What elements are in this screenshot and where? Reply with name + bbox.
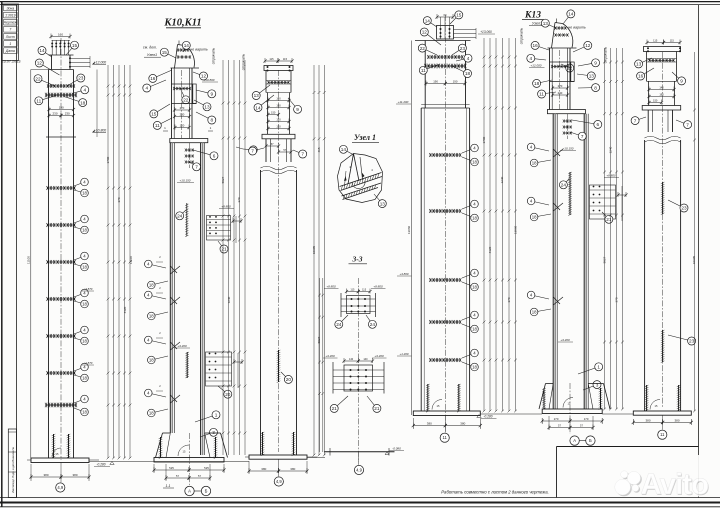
- svg-text:7: 7: [195, 165, 198, 170]
- svg-text:170: 170: [584, 417, 589, 421]
- column A base dims: [30, 464, 32, 481]
- svg-text:13: 13: [589, 74, 595, 79]
- callout 4 col A: [72, 90, 85, 94]
- svg-text:140: 140: [349, 358, 354, 361]
- callout 18 col D row4: [462, 324, 475, 329]
- column D overall dim line: [411, 41, 413, 416]
- callout 7 col F left: [635, 117, 646, 121]
- svg-text:5827: 5827: [603, 256, 607, 263]
- svg-text:115: 115: [362, 289, 367, 292]
- svg-text:4: 4: [83, 88, 86, 93]
- svg-text:+1.200: +1.200: [400, 352, 409, 356]
- svg-text:-0.280: -0.280: [483, 415, 492, 419]
- svg-text:13: 13: [204, 105, 210, 110]
- svg-text:14: 14: [39, 48, 45, 53]
- svg-text:380: 380: [460, 422, 465, 426]
- svg-text:24: 24: [370, 322, 376, 327]
- svg-text:8: 8: [210, 118, 213, 123]
- callout 15 col D: [450, 15, 459, 24]
- svg-text:380: 380: [290, 467, 295, 471]
- callout 18 col D row3: [462, 282, 475, 287]
- svg-text:7: 7: [301, 152, 304, 157]
- svg-text:А: А: [573, 438, 576, 443]
- dim chain A-B: [107, 65, 109, 458]
- column D splice bolt row 1: [428, 56, 462, 58]
- column D bolt row y360: [430, 359, 460, 361]
- svg-text:11100: 11100: [129, 256, 133, 264]
- column B weld mark 3: [170, 342, 180, 350]
- svg-text:14: 14: [341, 147, 347, 152]
- column A bolt row y188: [48, 187, 75, 189]
- svg-text:строжать: строжать: [212, 47, 216, 64]
- column A bolt row y225: [48, 224, 75, 226]
- callout 9 col F: [672, 72, 682, 81]
- axis bubble 4,9 col A: [56, 483, 65, 492]
- svg-text:16: 16: [532, 43, 538, 48]
- column B base trapezoid: [163, 432, 171, 434]
- svg-text:+3.200: +3.200: [325, 354, 335, 358]
- svg-text:18: 18: [82, 410, 87, 415]
- svg-text:+10.150: +10.150: [180, 179, 191, 183]
- callout 18 col E pair2: [534, 214, 551, 217]
- column A bolt row y262: [48, 261, 75, 263]
- svg-text:130: 130: [276, 118, 281, 122]
- svg-text:Зона: Зона: [6, 6, 14, 10]
- svg-text:1240: 1240: [227, 296, 231, 303]
- column D head right leaders: [454, 29, 477, 31]
- svg-text:+10.800: +10.800: [94, 128, 106, 132]
- callout 13 col B: [194, 100, 207, 107]
- svg-text:13060: 13060: [407, 225, 411, 234]
- svg-text:+4.870: +4.870: [84, 287, 93, 291]
- callout 4 col E head: [531, 58, 546, 60]
- svg-text:23: 23: [681, 206, 687, 211]
- svg-text:270: 270: [554, 417, 559, 421]
- callout 14 col D: [427, 21, 437, 27]
- column A base plate: [53, 434, 55, 458]
- column A splice bolt row 1: [48, 85, 74, 87]
- column B left chord bolt strip: [186, 352, 188, 378]
- callout 4 col D head: [456, 58, 468, 61]
- column C shaft break: [261, 166, 297, 170]
- callout 15 col B: [164, 52, 176, 58]
- svg-text:Узел1: Узел1: [147, 53, 157, 57]
- callout 7 col C right: [293, 150, 303, 154]
- callout 8 col B: [196, 112, 212, 120]
- section 3-3 centerline: [357, 278, 359, 462]
- column A upper shaft: [48, 70, 50, 138]
- svg-text:22: 22: [183, 98, 189, 103]
- svg-text:22: 22: [420, 46, 426, 51]
- section 3-3 upper bolt group: [347, 296, 371, 314]
- callout 18 col A: [64, 97, 83, 103]
- svg-text:+4.800: +4.800: [400, 272, 409, 276]
- callout 15 col A: [66, 45, 75, 55]
- svg-text:15: 15: [72, 43, 78, 48]
- column D bolt row y322: [430, 321, 460, 323]
- column A bolt row y336: [48, 335, 75, 337]
- callout 16 col B: [153, 70, 172, 78]
- callout 11 col D: [423, 64, 440, 70]
- column B base dims: [153, 464, 155, 473]
- callout 21 col B: [218, 241, 224, 249]
- callout 18 col A row6: [74, 375, 85, 378]
- column B weld mark 2: [170, 297, 180, 305]
- callout 11 col E: [542, 92, 556, 94]
- column F centerline: [662, 52, 664, 408]
- svg-text:120: 120: [180, 124, 185, 128]
- column D inner dims: [426, 83, 445, 85]
- callout 21 3-3 right: [367, 396, 377, 408]
- svg-text:20: 20: [225, 392, 231, 397]
- svg-text:4120: 4120: [123, 306, 127, 313]
- callout 24 col E: [563, 179, 569, 185]
- base datum line A-C: [89, 461, 249, 463]
- column F anchor strips: [646, 385, 648, 411]
- svg-text:190: 190: [453, 80, 458, 84]
- svg-text:-0.080: -0.080: [392, 447, 401, 451]
- column D bolt row y211: [430, 210, 460, 212]
- svg-text:18: 18: [82, 339, 87, 344]
- svg-text:4,9: 4,9: [57, 485, 63, 490]
- svg-text:+13.060: +13.060: [480, 30, 492, 34]
- dim 57 col C: [266, 145, 279, 147]
- svg-text:11100: 11100: [27, 256, 31, 264]
- callout 9 col E: [578, 63, 596, 66]
- svg-text:15: 15: [151, 112, 157, 117]
- callout 18 col A row3: [74, 264, 85, 267]
- svg-text:18: 18: [465, 71, 471, 76]
- column E left chord: [552, 114, 554, 409]
- column C center bolt strip: [278, 350, 280, 382]
- callout 4 col D row4: [462, 315, 475, 320]
- svg-text:13: 13: [380, 201, 386, 206]
- svg-text:140: 140: [659, 86, 664, 90]
- axis bubble 11 col F: [658, 430, 667, 439]
- svg-text:21: 21: [221, 247, 227, 252]
- svg-text:-0.280: -0.280: [96, 463, 105, 467]
- column C neck shaft: [267, 93, 269, 135]
- svg-text:115: 115: [283, 57, 288, 61]
- svg-text:13060: 13060: [514, 225, 518, 234]
- axis bubble 11 col D: [440, 433, 449, 442]
- callout 14 col B: [183, 45, 186, 52]
- callout 13 uzel1: [374, 194, 382, 204]
- svg-text:Инв.№подл. Подп. и дата Взам: Инв.№подл. Подп. и дата Взам.инв.№: [11, 447, 15, 493]
- svg-text:115: 115: [653, 39, 658, 43]
- callout 7 col B left: [190, 162, 197, 167]
- svg-text:11: 11: [155, 123, 160, 128]
- callout 21 3-3 left: [334, 396, 348, 408]
- callout 23b col F: [668, 335, 692, 341]
- svg-text:230: 230: [558, 91, 563, 95]
- column E splice plate: [547, 110, 585, 114]
- svg-text:А: А: [188, 489, 191, 494]
- callout 4 col E pair3: [531, 295, 549, 299]
- column A bolt row y373: [48, 372, 75, 374]
- column F neck shaft: [648, 81, 650, 105]
- svg-text:11: 11: [443, 435, 448, 440]
- svg-text:115: 115: [670, 39, 675, 43]
- svg-text:Работать совместно с листом 2: Работать совместно с листом 2 данного че…: [441, 490, 549, 495]
- column F base dims: [632, 419, 634, 425]
- column B weld mark 1: [170, 266, 180, 274]
- column A bolt row y405: [46, 404, 76, 406]
- svg-text:18: 18: [472, 216, 477, 221]
- svg-text:см. дет.: см. дет.: [143, 45, 157, 49]
- sheet bottom edge double line: [0, 497, 720, 499]
- callout 4 col A row1: [74, 182, 85, 186]
- svg-text:3: 3: [212, 430, 215, 435]
- callout 18 col B pair4: [151, 409, 168, 413]
- svg-text:18: 18: [82, 265, 87, 270]
- svg-text:11: 11: [36, 99, 41, 104]
- svg-text:13: 13: [636, 62, 642, 67]
- svg-text:4: 4: [145, 86, 148, 91]
- callout 18 col A row4: [74, 301, 85, 304]
- svg-text:6: 6: [596, 122, 599, 127]
- column F wide plate: [642, 106, 681, 111]
- column B splice plate: [170, 139, 208, 143]
- column A inner dims: [49, 109, 74, 111]
- svg-text:21: 21: [332, 406, 338, 411]
- svg-text:12: 12: [422, 30, 428, 35]
- svg-text:18: 18: [472, 365, 477, 370]
- column E right chord: [583, 114, 585, 409]
- svg-text:380: 380: [72, 473, 77, 477]
- callout 18 col D row5: [462, 362, 475, 367]
- svg-text:Узел 1: Узел 1: [354, 133, 376, 142]
- callout 16 col F: [641, 68, 654, 76]
- svg-text:23: 23: [460, 46, 466, 51]
- svg-text:370: 370: [117, 197, 121, 202]
- svg-text:+10.150: +10.150: [563, 147, 574, 151]
- callout 14 uzel1: [343, 149, 353, 154]
- callout 6 col B: [193, 150, 214, 156]
- svg-text:15: 15: [162, 50, 168, 55]
- svg-text:18: 18: [532, 310, 537, 315]
- svg-text:190: 190: [659, 93, 664, 97]
- svg-text:Б: Б: [205, 489, 208, 494]
- svg-text:18: 18: [82, 228, 87, 233]
- callout 4 col A row5: [74, 330, 85, 334]
- svg-text:190: 190: [59, 106, 64, 110]
- svg-text:7: 7: [581, 134, 584, 139]
- svg-text:150: 150: [653, 99, 658, 103]
- svg-text:1-1: 1-1: [166, 484, 171, 488]
- callout 4 col D row2: [462, 204, 475, 209]
- callout 13 col F: [639, 58, 652, 64]
- callout 20 col C: [281, 372, 288, 379]
- svg-text:270: 270: [180, 106, 185, 110]
- callout 4 col B pair4: [148, 393, 166, 397]
- svg-text:Лист: Лист: [5, 35, 15, 39]
- svg-text:115: 115: [350, 289, 355, 292]
- callout 16 col E: [535, 45, 549, 50]
- svg-text:10905: 10905: [312, 245, 316, 254]
- callout 24 3-3 left: [339, 315, 348, 324]
- column F base plate: [633, 411, 691, 415]
- column E mid plate detail: [569, 172, 571, 215]
- svg-text:18: 18: [80, 100, 86, 105]
- Avito watermark: [615, 455, 713, 502]
- svg-text:К13: К13: [524, 11, 541, 21]
- svg-text:5827: 5827: [221, 176, 225, 183]
- svg-text:3: 3: [596, 382, 599, 387]
- svg-text:16: 16: [638, 74, 644, 79]
- callout 22 col E: [561, 64, 570, 68]
- column D centerline: [444, 15, 446, 432]
- svg-text:380: 380: [43, 473, 48, 477]
- column F stub flanges: [647, 110, 649, 132]
- callout 11 col A: [39, 96, 56, 101]
- dim chain D-E: [483, 38, 485, 411]
- column A splice bolt row 2: [46, 94, 76, 96]
- svg-text:24: 24: [177, 214, 183, 219]
- svg-text:140: 140: [276, 97, 281, 101]
- callout 3 col B: [200, 432, 214, 437]
- elevation +10.800 col A: [92, 130, 95, 133]
- svg-text:7: 7: [634, 118, 637, 123]
- svg-text:9: 9: [210, 92, 213, 97]
- svg-text:13: 13: [254, 93, 260, 98]
- svg-text:525: 525: [204, 466, 209, 470]
- column B weld mark 4: [170, 395, 180, 403]
- callout 13 col C: [256, 85, 270, 96]
- column E weld mark 1: [553, 149, 563, 157]
- column D base dims: [412, 418, 414, 429]
- svg-text:3700: 3700: [106, 156, 110, 163]
- svg-text:5827: 5827: [317, 336, 321, 343]
- dim chain left of 3-3: [319, 278, 321, 452]
- svg-text:+1.870: +1.870: [84, 361, 93, 365]
- callout 18 col D row2: [462, 213, 475, 218]
- column D anchor strips: [427, 384, 429, 411]
- column E upper shaft: [549, 48, 551, 110]
- column A splice line: [46, 136, 76, 138]
- callout 20 col B: [218, 386, 228, 394]
- svg-text:9: 9: [594, 61, 597, 66]
- callout 18 col B pair1: [151, 281, 168, 285]
- svg-text:12: 12: [37, 61, 43, 66]
- svg-text:Узел1: Узел1: [532, 22, 542, 26]
- callout 18 col E pair1: [534, 160, 551, 163]
- column D transition: [421, 107, 469, 109]
- section 3-3 lower bolt group: [344, 365, 373, 391]
- column D upper shaft: [424, 41, 426, 109]
- column C centerline: [278, 70, 280, 452]
- column E upper centerline: [559, 50, 561, 109]
- svg-text:230: 230: [52, 112, 57, 116]
- svg-text:+3.200: +3.200: [560, 338, 570, 342]
- callout 22 col B: [180, 88, 186, 100]
- callout 18 col A base: [74, 408, 85, 412]
- column A overall dim lines: [30, 70, 32, 463]
- column E hanging bolt strip: [566, 114, 568, 139]
- base datum line E-F: [602, 413, 633, 415]
- svg-text:10905: 10905: [692, 255, 696, 264]
- callout 4 col E pair1: [531, 147, 549, 151]
- column E weld mark 3: [553, 297, 563, 305]
- svg-text:8: 8: [594, 85, 597, 90]
- column F cap plate: [644, 47, 681, 52]
- svg-text:1: 1: [215, 413, 218, 418]
- sheet top edge double line: [0, 1, 720, 3]
- svg-text:15: 15: [456, 13, 462, 18]
- svg-text:14: 14: [255, 105, 261, 110]
- svg-text:+8.800: +8.800: [326, 285, 336, 289]
- column B upper centerline: [181, 70, 183, 138]
- callout 14 col E top: [563, 14, 571, 24]
- column A bolt row y299: [48, 298, 75, 300]
- svg-text:115: 115: [269, 57, 274, 61]
- svg-text:18: 18: [149, 411, 154, 416]
- callout 24 3-3 right: [366, 315, 372, 324]
- callout 12 col B: [193, 72, 204, 76]
- column B mid plate detail lower: [206, 352, 232, 386]
- callout 3 col E: [583, 385, 597, 390]
- column D bolt row y155: [430, 154, 460, 156]
- svg-text:370: 370: [507, 297, 511, 302]
- svg-text:не варить: не варить: [190, 48, 208, 52]
- column B left chord: [169, 143, 171, 433]
- column D splice bolt row 2: [425, 65, 465, 67]
- svg-text:380: 380: [674, 418, 679, 422]
- callout 11 col B: [157, 118, 172, 125]
- column E weld mark 2: [553, 203, 563, 211]
- column C long shaft: [260, 170, 262, 455]
- svg-text:+8.800: +8.800: [373, 285, 383, 289]
- uzel 1 detail blob: [338, 154, 383, 203]
- svg-text:380: 380: [427, 422, 432, 426]
- svg-text:18: 18: [82, 191, 87, 196]
- svg-text:Avito: Avito: [640, 468, 708, 501]
- callout 18 col A row1: [74, 190, 85, 193]
- axis bubbles A-B col E: [570, 436, 579, 445]
- column E head bevel and arc: [552, 23, 556, 49]
- svg-text:11: 11: [660, 432, 665, 437]
- callout 14 col A: [42, 51, 52, 58]
- svg-text:12: 12: [585, 43, 591, 48]
- svg-text:4: 4: [529, 56, 532, 61]
- column C anchor strips: [262, 432, 264, 455]
- svg-text:18: 18: [149, 314, 154, 319]
- column D bolt row y280: [430, 279, 460, 281]
- left stamp strip: [8, 429, 16, 498]
- callout 4 col D row1: [462, 148, 475, 153]
- callout 7 col F right: [676, 120, 688, 125]
- callout 4 col B pair1: [148, 264, 166, 268]
- svg-text:24: 24: [336, 322, 342, 327]
- svg-text:не варить: не варить: [568, 26, 586, 30]
- sheet left paper edge: [1, 2, 3, 507]
- svg-text:6: 6: [213, 154, 216, 159]
- svg-text:+8.800: +8.800: [606, 174, 616, 178]
- svg-text:14: 14: [184, 43, 190, 48]
- callout 9 col B: [196, 90, 212, 94]
- callout 18 col A row2: [74, 227, 85, 230]
- svg-text:23: 23: [78, 76, 84, 81]
- axis bubble 4,9 3-3: [354, 465, 363, 474]
- callout 14 col C: [258, 95, 274, 108]
- callout 9 col C: [288, 98, 298, 109]
- svg-text:18: 18: [82, 302, 87, 307]
- svg-text:20: 20: [286, 377, 292, 382]
- frame left line: [16, 5, 18, 498]
- svg-text:7: 7: [251, 149, 254, 154]
- callout 23 col F: [668, 200, 684, 208]
- callout 24 col B: [180, 210, 186, 216]
